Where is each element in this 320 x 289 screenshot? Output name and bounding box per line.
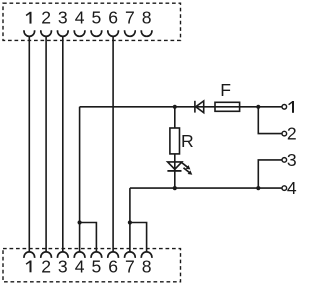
svg-text:3: 3 [58, 8, 68, 28]
top socket contact 8 [141, 30, 152, 36]
terminal circle 3 [282, 158, 287, 163]
svg-text:7: 7 [125, 8, 135, 28]
fuse F1 body [215, 102, 240, 111]
junction node pin4/pin5 [78, 220, 82, 224]
svg-text:4: 4 [287, 178, 297, 198]
bottom socket contact 8 [141, 252, 152, 258]
bottom socket contact 1 [24, 252, 35, 258]
LED D2 emission arrow 2 [184, 168, 193, 175]
wire branch to bottom pin 8 [130, 223, 147, 252]
top socket contact 1 [24, 30, 35, 36]
terminal circle 4 [282, 186, 287, 191]
bottom pin number 1 [26, 261, 30, 273]
svg-text:8: 8 [142, 256, 152, 276]
svg-text:2: 2 [287, 124, 297, 144]
svg-text:4: 4 [75, 256, 85, 276]
top socket contact 6 [108, 30, 119, 36]
terminal circle 2 [282, 131, 287, 136]
bottom socket contact 2 [41, 252, 52, 258]
top socket contact 5 [91, 30, 102, 36]
diode D1 triangle [196, 101, 204, 113]
bottom socket contact 4 [74, 252, 85, 258]
svg-text:4: 4 [75, 8, 85, 28]
junction node terminal 1/2 [256, 105, 260, 109]
top connector box J1 [3, 3, 181, 40]
wire branch to bottom pin 5 [80, 223, 97, 252]
top socket contact 4 [74, 30, 85, 36]
LED D2 cathode bar [167, 170, 181, 172]
junction node terminal 3/4 [256, 186, 260, 190]
bottom socket contact 3 [58, 252, 69, 258]
svg-text:6: 6 [108, 256, 118, 276]
wire top pin 1 to bottom pin 1 [28, 36, 30, 252]
bottom socket contact 7 [125, 252, 136, 258]
top pin number 1 [26, 12, 30, 24]
wire top pin 2 to bottom pin 2 [45, 36, 47, 252]
top socket contact 7 [125, 30, 136, 36]
terminal circle 1 [282, 105, 287, 110]
bottom socket contact 5 [91, 252, 102, 258]
svg-text:2: 2 [41, 256, 51, 276]
wire bus A drop to bottom pin 4 [79, 107, 81, 252]
svg-text:5: 5 [92, 8, 102, 28]
wire bus B drop to bottom pin 7 [129, 188, 131, 252]
svg-text:3: 3 [58, 256, 68, 276]
top socket contact 3 [58, 30, 69, 36]
svg-text:5: 5 [92, 256, 102, 276]
diode D1 cathode bar [194, 101, 196, 113]
wire bus B horizontal to terminal 4 [130, 187, 282, 189]
junction node bus B / LED branch [173, 186, 177, 190]
svg-text:7: 7 [125, 256, 135, 276]
svg-text:6: 6 [108, 8, 118, 28]
LED D2 triangle [168, 162, 182, 169]
wire resistor branch vertical [174, 107, 176, 188]
svg-text:3: 3 [287, 150, 297, 170]
bottom socket contact 6 [108, 252, 119, 258]
wire top pin 6 to bottom pin 6 [112, 36, 114, 252]
wire bus A horizontal to terminal 1 [80, 106, 283, 108]
LED D2 emission arrow 1 [182, 163, 191, 170]
wire to terminal 2 [258, 107, 282, 134]
svg-text:2: 2 [41, 8, 51, 28]
top socket contact 2 [41, 30, 52, 36]
terminal label 1 [289, 101, 293, 113]
resistor R1 body [170, 128, 180, 154]
wire from terminal 3 [258, 160, 282, 188]
svg-text:R: R [181, 131, 194, 151]
junction node pin7/pin8 [128, 220, 132, 224]
svg-text:F: F [220, 80, 231, 100]
bottom connector box J2 [3, 249, 181, 282]
junction node bus A / resistor branch [173, 105, 177, 109]
wire top pin 3 to bottom pin 3 [62, 36, 64, 252]
svg-text:8: 8 [142, 8, 152, 28]
